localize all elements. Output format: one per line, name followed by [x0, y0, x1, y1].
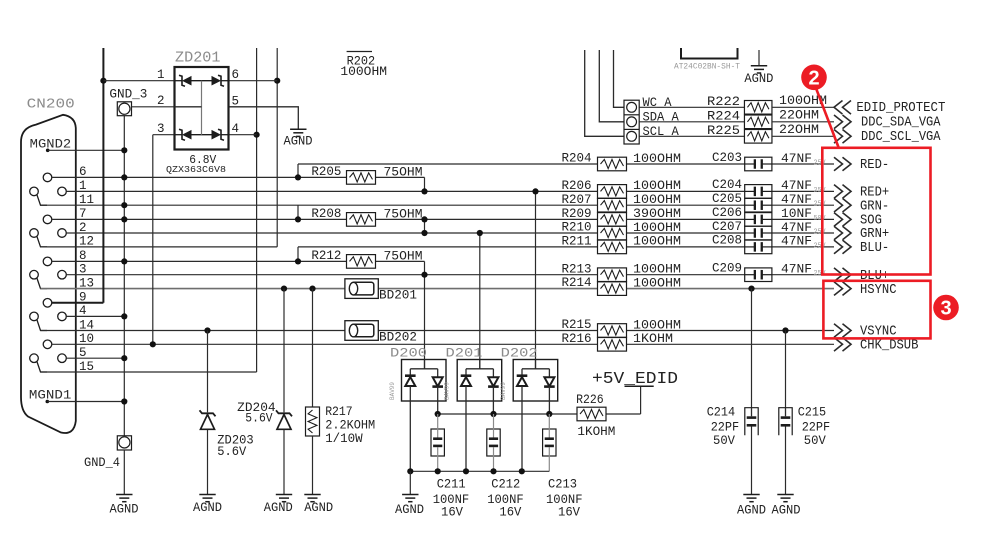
junction AGND rail/D202 left: [519, 468, 525, 474]
junction pin11 / GND bus: [121, 202, 127, 208]
pin 14 bent lead: [37, 320, 47, 331]
svg-text:47NF: 47NF: [781, 235, 812, 249]
svg-text:22PF: 22PF: [711, 421, 740, 435]
wire ZD204 from HSYNC row: [283, 289, 285, 413]
wire header to R222: [639, 106, 745, 108]
svg-text:C215: C215: [798, 406, 827, 420]
wire pin13 row HSYNC: [41, 288, 599, 290]
junction pin6 row / R205 input: [295, 174, 301, 180]
ZD201 internal common wire: [201, 81, 203, 135]
wire R215 out to VSYNC port: [626, 330, 834, 332]
junction HSYNC row / R217: [309, 286, 315, 292]
capacitor C207: [745, 226, 772, 240]
annotation box 2: [822, 148, 930, 275]
wire C203 to RED- port: [772, 163, 834, 165]
svg-text:4: 4: [232, 122, 240, 136]
pin 11 bent lead: [37, 195, 47, 206]
svg-text:CHK_DSUB: CHK_DSUB: [860, 338, 918, 354]
wire MGND2 to ground bus: [48, 149, 125, 151]
wire AGND rail stub: [409, 471, 411, 494]
pin 13 bent lead: [37, 278, 47, 289]
svg-text:R207: R207: [562, 193, 592, 207]
port BLU- chevron: [834, 240, 851, 254]
port RED- chevron: [834, 157, 851, 171]
wire +5V bus pin9 up: [102, 48, 104, 303]
svg-text:C209: C209: [712, 262, 742, 276]
svg-text:D200: D200: [390, 345, 427, 360]
wire ZD204 to AGND: [283, 430, 285, 495]
wire pin10 row CHK: [52, 343, 598, 345]
pin 3 circle: [58, 270, 67, 279]
resistor R226: [577, 407, 606, 421]
zener array ZD201 box: [175, 67, 229, 150]
connector CN200 shell: [21, 115, 76, 433]
wire R209 out: [626, 218, 745, 220]
svg-text:100OHM: 100OHM: [633, 179, 681, 193]
svg-text:2: 2: [808, 67, 819, 89]
junction RED video / R205 out: [421, 188, 427, 194]
wire pin5 row: [66, 357, 124, 359]
resistor R212: [347, 255, 376, 269]
wire C205 to GRN- port: [772, 204, 834, 206]
svg-text:2: 2: [157, 94, 165, 108]
junction green video / R209 tap: [421, 216, 427, 222]
svg-text:AGND: AGND: [395, 503, 424, 517]
resistor R225: [744, 130, 772, 144]
svg-text:47NF: 47NF: [781, 221, 812, 235]
pin 10 circle: [43, 340, 52, 349]
wire ZD201 pin4: [229, 134, 257, 136]
svg-text:R226: R226: [576, 393, 604, 407]
resistor R207: [598, 198, 627, 212]
wire ZD201 pin3: [153, 134, 175, 136]
svg-text:D202: D202: [501, 345, 538, 360]
svg-text:R213: R213: [562, 262, 592, 276]
resistor R211: [598, 240, 627, 254]
port HSYNC chevron: [834, 282, 851, 296]
svg-text:C212: C212: [491, 478, 520, 492]
svg-text:GND_3: GND_3: [109, 88, 147, 102]
capacitor C211: [431, 414, 444, 471]
junction ZD201 pin6 / SDA bus: [274, 78, 280, 84]
junction pin5 / GND bus: [121, 355, 127, 361]
junction ZD201 pin4 / SCL bus: [254, 132, 260, 138]
wire C204 to RED+ port: [772, 190, 834, 192]
pin 15 circle: [30, 354, 39, 363]
junction MGND1 / GND bus: [121, 398, 127, 404]
ground AGND top: [751, 66, 767, 73]
wire +5V rail: [438, 413, 577, 415]
svg-text:16V: 16V: [499, 506, 521, 520]
wire pin15 row SCL: [41, 371, 257, 373]
svg-text:100OHM: 100OHM: [633, 193, 681, 207]
pin 7 circle: [43, 215, 52, 224]
ferrite bead BD202: [345, 321, 378, 341]
svg-text:1: 1: [157, 68, 165, 82]
svg-text:100OHM: 100OHM: [340, 65, 387, 79]
svg-text:1KOHM: 1KOHM: [633, 332, 673, 346]
wire R208 out to R209: [376, 218, 599, 220]
wire R204 out: [626, 163, 745, 165]
wire pin3 row BLU video: [66, 274, 598, 276]
ground symbol GND_4: [117, 436, 131, 450]
wire C214 from HSYNC row: [751, 289, 753, 408]
junction pin6 / GND bus: [121, 174, 127, 180]
svg-text:C204: C204: [712, 178, 742, 192]
wire GND_4 to AGND: [123, 450, 125, 495]
wire ZD201 pin5 to AGND: [229, 107, 299, 129]
wire C206 to SOG port: [772, 218, 834, 220]
svg-text:47NF: 47NF: [781, 263, 812, 277]
wire pin4 row: [66, 315, 124, 317]
capacitor C212: [487, 414, 500, 471]
wire R216 out to CHK_DSUB port: [626, 343, 834, 345]
wire R207 out: [626, 204, 745, 206]
junction pin10 row / ZD201 pin3 bus: [150, 341, 156, 347]
svg-text:5: 5: [232, 95, 240, 109]
svg-text:R208: R208: [311, 207, 341, 221]
svg-text:R210: R210: [562, 221, 592, 235]
svg-text:AT24C02BN-SH-T: AT24C02BN-SH-T: [674, 62, 740, 72]
diode pack D202: [513, 360, 558, 472]
annotation circle 2: [801, 65, 827, 91]
svg-text:47NF: 47NF: [781, 193, 812, 207]
svg-text:R216: R216: [562, 332, 592, 346]
wire stub R212 input to R211 row: [297, 247, 299, 262]
wire R213 out: [626, 274, 745, 276]
svg-text:R204: R204: [562, 152, 592, 166]
annotation circle 3: [933, 295, 959, 321]
pin 9 circle: [43, 299, 52, 308]
ferrite bead BD201: [345, 279, 378, 299]
svg-text:CN200: CN200: [27, 98, 75, 113]
wire ZD201 pin6: [229, 80, 278, 82]
wire pin14 row VSYNC: [41, 330, 345, 332]
svg-text:100OHM: 100OHM: [633, 276, 681, 290]
pin 4 circle: [58, 312, 67, 321]
svg-text:1KOHM: 1KOHM: [577, 425, 615, 439]
svg-text:AGND: AGND: [772, 504, 801, 518]
junction ZD201 pin1 / +5V bus: [100, 78, 106, 84]
ground AGND under C214: [743, 495, 759, 502]
junction pin8 / GND bus: [121, 258, 127, 264]
wire +5V riser: [640, 386, 642, 414]
wire pin11 row to R207: [41, 204, 599, 206]
resistor R206: [598, 185, 627, 199]
pin 6 circle: [43, 173, 52, 182]
resistor R205: [347, 171, 376, 185]
wire pin7 row (green return): [52, 218, 347, 220]
svg-text:10NF: 10NF: [781, 207, 812, 221]
wire R224 to DDC_SDA port: [772, 121, 834, 123]
port GRN+ chevron: [834, 226, 851, 240]
node MGND1 pin dot: [46, 400, 50, 404]
wire R205 out drop: [376, 176, 425, 178]
junction AGND rail/C211: [435, 468, 441, 474]
pin 1 circle: [58, 187, 67, 196]
svg-text:C207: C207: [712, 220, 742, 234]
svg-text:50V: 50V: [804, 434, 826, 448]
svg-text:22OHM: 22OHM: [779, 123, 819, 137]
pin 14 circle: [30, 312, 39, 321]
zener ZD204: [276, 410, 292, 429]
ground AGND at ZD201 pin5: [290, 129, 306, 136]
resistor R215: [598, 324, 627, 338]
wire C214 to AGND: [751, 427, 753, 495]
junction C213/+5V rail: [546, 411, 552, 417]
svg-text:75OHM: 75OHM: [384, 208, 423, 222]
wire R211 row: [298, 246, 598, 248]
wire D202 feed: [535, 191, 537, 368]
svg-text:R217: R217: [325, 405, 353, 419]
wire R222 to EDID_PROTECT port: [772, 106, 834, 108]
wire C215 from VSYNC row: [785, 331, 787, 409]
port GRN- chevron: [834, 198, 851, 212]
header JP WC/SDA/SCL: [624, 100, 639, 144]
resistor R222: [744, 101, 772, 115]
wire R208 out drop: [424, 219, 426, 233]
junction pin7 row / R208 input: [295, 216, 301, 222]
resistor R208: [347, 213, 376, 227]
capacitor C214: [745, 408, 758, 436]
svg-text:5.6V: 5.6V: [217, 445, 246, 459]
svg-text:BAV99: BAV99: [500, 382, 507, 400]
wire stub R205 input to R204 row: [297, 164, 299, 177]
svg-text:6: 6: [232, 68, 240, 82]
svg-text:D201: D201: [446, 345, 483, 360]
ground AGND under diode rail: [402, 495, 418, 502]
diode pack D201: [457, 360, 502, 472]
annotation box 3: [823, 281, 930, 339]
wire SCL bus (pin15 up): [256, 48, 258, 372]
wire SDA bus (pin12 up): [276, 48, 278, 247]
wire header to R224: [639, 121, 745, 123]
wire R204 ground row: [298, 163, 598, 165]
ground AGND under ZD203: [199, 495, 215, 502]
svg-text:47NF: 47NF: [781, 179, 812, 193]
svg-text:R209: R209: [562, 207, 592, 221]
svg-text:25V: 25V: [814, 187, 827, 195]
pin 15 bent lead: [37, 362, 47, 373]
diode pack D200: [402, 360, 447, 472]
svg-text:3: 3: [940, 298, 951, 320]
zener ZD203: [200, 410, 216, 429]
ground AGND under ZD204: [276, 495, 292, 502]
junction HSYNC / C214: [748, 286, 754, 292]
svg-text:+5V_EDID: +5V_EDID: [592, 369, 678, 388]
svg-text:R211: R211: [562, 235, 592, 249]
svg-text:C205: C205: [712, 192, 742, 206]
ground AGND under R217: [304, 495, 320, 502]
port BLU+ chevron: [834, 268, 851, 282]
svg-text:R212: R212: [311, 249, 341, 263]
svg-text:MGND2: MGND2: [30, 137, 71, 152]
svg-text:25V: 25V: [814, 229, 827, 237]
junction GRN video / D201: [477, 230, 483, 236]
svg-text:C211: C211: [437, 478, 466, 492]
wire ZD203 to AGND: [207, 430, 209, 495]
junction C212/+5V rail: [490, 411, 496, 417]
svg-text:R214: R214: [562, 276, 592, 290]
wire AGND rail: [410, 470, 549, 472]
capacitor C213: [543, 414, 556, 471]
wire BD202 to R215: [378, 330, 598, 332]
junction VSYNC row / ZD203: [204, 327, 210, 333]
pin 12 circle: [30, 229, 39, 238]
wire R212 out drop / D200 feed: [424, 261, 426, 368]
svg-text:25V: 25V: [814, 242, 827, 250]
wire C215 to AGND: [785, 427, 787, 495]
wire pin6 row (red return): [52, 176, 347, 178]
svg-text:100OHM: 100OHM: [633, 263, 681, 277]
junction HSYNC row / ZD204: [281, 286, 287, 292]
svg-text:AGND: AGND: [304, 501, 333, 515]
svg-text:DDC_SCL_VGA: DDC_SCL_VGA: [861, 129, 941, 145]
svg-text:50V: 50V: [713, 434, 735, 448]
wire C207 to GRN+ port: [772, 232, 834, 234]
resistor R217: [306, 407, 320, 436]
svg-text:R215: R215: [562, 318, 592, 332]
capacitor C204: [745, 185, 772, 199]
svg-text:R224: R224: [707, 109, 740, 123]
wire C208 to BLU- port: [772, 246, 834, 248]
wire R210 out: [626, 232, 745, 234]
wire ZD203 from VSYNC row: [207, 331, 209, 413]
wire pin12 row SDA: [41, 246, 278, 248]
svg-text:R222: R222: [707, 95, 740, 109]
junction MGND2 / GND bus: [121, 147, 127, 153]
port DDC_SDA_VGA chevron: [834, 115, 851, 129]
svg-text:100OHM: 100OHM: [633, 221, 681, 235]
svg-text:AGND: AGND: [737, 504, 766, 518]
junction GRN video / R208 out: [421, 230, 427, 236]
junction pin8 row / R212 input: [295, 258, 301, 264]
svg-text:BD202: BD202: [379, 330, 417, 344]
wire eeprom WC pin: [614, 50, 625, 107]
annotation leader line: [817, 90, 840, 149]
svg-text:R205: R205: [311, 165, 341, 179]
wire R217 from HSYNC row: [312, 289, 314, 407]
resistor R224: [744, 115, 772, 129]
svg-text:25V: 25V: [814, 201, 827, 209]
wire D201 feed: [479, 233, 481, 369]
port DDC_SCL_VGA chevron: [834, 130, 851, 144]
svg-text:MGND1: MGND1: [29, 388, 72, 403]
capacitor C203: [745, 157, 772, 171]
pin 8 circle: [43, 257, 52, 266]
resistor R213: [598, 268, 627, 282]
pin 2 circle: [58, 229, 67, 238]
port CHK_DSUB chevron: [834, 338, 851, 352]
svg-text:C206: C206: [712, 206, 742, 220]
svg-text:22PF: 22PF: [802, 421, 831, 435]
resistor R209: [598, 213, 627, 227]
svg-text:AGND: AGND: [284, 134, 313, 148]
wire ground bus GND_3 to GND_4: [123, 116, 125, 436]
svg-text:3: 3: [157, 122, 165, 136]
svg-text:R225: R225: [707, 124, 740, 138]
svg-text:QZX363C6V8: QZX363C6V8: [166, 165, 226, 175]
wire AGND stub top: [758, 50, 760, 66]
resistor R210: [598, 226, 627, 240]
svg-text:C214: C214: [707, 406, 736, 420]
wire R214 out to HSYNC port: [626, 288, 834, 290]
wire ZD201 pin3 bus to pin10 row: [152, 135, 154, 345]
svg-text:C203: C203: [712, 151, 742, 165]
svg-text:75OHM: 75OHM: [384, 166, 423, 180]
svg-text:16V: 16V: [441, 506, 463, 520]
wire eeprom SCL pin: [585, 50, 624, 136]
wire pin2 row GRN video: [66, 232, 598, 234]
wire eeprom SDA pin: [599, 50, 624, 122]
wire MGND1 to ground bus: [47, 401, 124, 403]
junction BLU video / D200: [421, 272, 427, 278]
svg-text:BAV99: BAV99: [444, 382, 451, 400]
svg-text:1/10W: 1/10W: [325, 432, 363, 446]
ground AGND under GND_4: [116, 495, 132, 502]
wire R211 out: [626, 246, 745, 248]
wire header to R225: [639, 135, 745, 137]
capacitor C215: [779, 408, 792, 436]
svg-text:GND_4: GND_4: [84, 456, 120, 470]
svg-text:BLU-: BLU-: [860, 240, 889, 256]
svg-text:75OHM: 75OHM: [384, 250, 423, 264]
wire ZD201 pin2 to GND_3: [132, 106, 175, 108]
port VSYNC chevron: [834, 324, 851, 338]
wire R206 out: [626, 190, 745, 192]
svg-text:25V: 25V: [814, 160, 827, 168]
wire C209 to BLU+ port: [772, 274, 834, 276]
junction AGND rail/D201 left: [463, 468, 469, 474]
svg-text:C213: C213: [548, 478, 577, 492]
pin 11 circle: [30, 187, 39, 196]
junction AGND rail/C212: [490, 468, 496, 474]
wire pin1 row RED video: [66, 190, 598, 192]
junction pin7 / GND bus: [121, 216, 127, 222]
svg-text:AGND: AGND: [264, 501, 293, 515]
capacitor C205: [745, 198, 772, 212]
wire stub R208 input to R207 row: [297, 205, 299, 219]
svg-text:BAV99: BAV99: [389, 382, 396, 400]
svg-text:390OHM: 390OHM: [633, 207, 681, 221]
svg-text:100OHM: 100OHM: [633, 152, 681, 166]
port RED+ chevron: [834, 185, 851, 199]
svg-text:AGND: AGND: [193, 501, 222, 515]
svg-text:100OHM: 100OHM: [633, 318, 681, 332]
wire pin8 row (blue return): [52, 260, 347, 262]
pin 5 circle: [58, 354, 67, 363]
svg-text:RED-: RED-: [860, 157, 889, 173]
svg-text:16V: 16V: [558, 506, 580, 520]
capacitor C206: [745, 213, 772, 227]
junction C211/+5V rail: [435, 411, 441, 417]
ZD201 zener pair pins 3-4: [175, 129, 229, 140]
svg-text:2.2KOHM: 2.2KOHM: [325, 419, 375, 433]
svg-text:100OHM: 100OHM: [633, 235, 681, 249]
svg-text:47NF: 47NF: [781, 152, 812, 166]
wire R225 to DDC_SCL port: [772, 135, 834, 137]
port SOG chevron: [834, 213, 851, 227]
svg-text:R206: R206: [562, 179, 592, 193]
wire R226 out: [606, 413, 640, 415]
wire ZD201 pin1: [103, 80, 174, 82]
net label R202 overline: [347, 51, 372, 53]
wire R212 out: [376, 260, 425, 262]
junction RED video / D202: [532, 188, 538, 194]
ZD201 zener pair pins 1-6: [175, 75, 229, 86]
svg-text:50V: 50V: [814, 215, 827, 223]
pin 12 bent lead: [37, 236, 47, 247]
